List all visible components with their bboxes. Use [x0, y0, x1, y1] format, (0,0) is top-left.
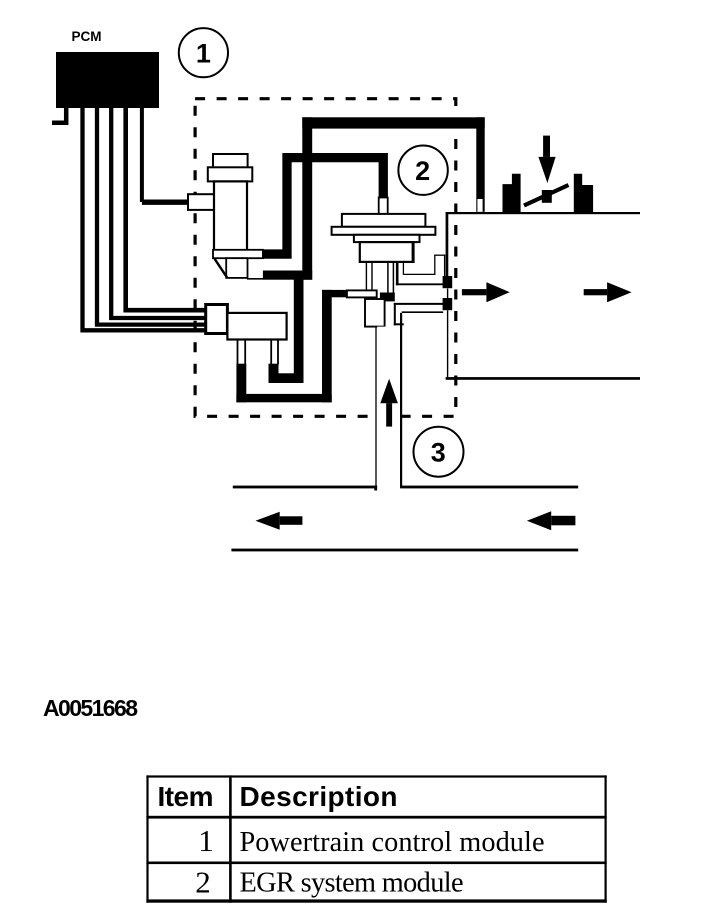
svg-text:PCM: PCM [72, 29, 102, 44]
svg-text:EGR system module: EGR system module [240, 868, 464, 899]
svg-text:A0051668: A0051668 [43, 695, 138, 721]
svg-text:2: 2 [415, 156, 430, 186]
svg-text:Description: Description [240, 781, 398, 812]
svg-text:1: 1 [196, 39, 211, 69]
svg-text:3: 3 [431, 438, 446, 468]
svg-text:2: 2 [195, 865, 211, 900]
svg-text:1: 1 [198, 823, 214, 858]
svg-text:Item: Item [158, 781, 214, 812]
svg-text:Powertrain control module: Powertrain control module [240, 827, 545, 858]
